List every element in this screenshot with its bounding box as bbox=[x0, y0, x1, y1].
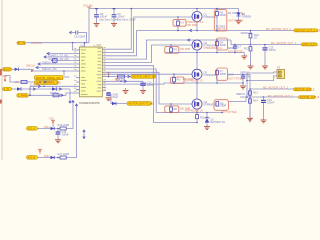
svg-text:PAD: PAD bbox=[113, 95, 118, 99]
IC right pins bbox=[102, 49, 106, 90]
wire to ch1 source line bbox=[106, 31, 294, 56]
svg-text:GREEN: GREEN bbox=[242, 14, 251, 18]
capacitor C1 bbox=[94, 8, 119, 24]
svg-text:BAT54: BAT54 bbox=[50, 91, 58, 95]
resistor box R9 (right ch4) bbox=[214, 100, 229, 111]
output wire ch2 bbox=[231, 40, 310, 45]
svg-text:NOT FITTED: NOT FITTED bbox=[228, 18, 243, 22]
svg-text:BAT54HT1G: BAT54HT1G bbox=[211, 120, 226, 124]
svg-text:STM32F103C8T6: STM32F103C8T6 bbox=[79, 101, 100, 105]
cap input A bbox=[56, 129, 70, 140]
svg-text:C6 100nF: C6 100nF bbox=[74, 35, 86, 39]
resistor R5 dnp box bbox=[171, 74, 185, 83]
junction + arrow bbox=[120, 80, 126, 83]
divider resistor Rb bbox=[249, 99, 259, 119]
snubber cap ch2 bbox=[233, 44, 242, 54]
junction input A bbox=[57, 128, 59, 130]
wire rail corner to LED bbox=[238, 9, 240, 13]
svg-text:330R: 330R bbox=[228, 46, 234, 50]
wire to ch3 gate bbox=[106, 73, 192, 75]
transistor Q3 bbox=[192, 69, 217, 83]
svg-text:NTR4003N: NTR4003N bbox=[204, 73, 217, 77]
3V3 arrow input B bbox=[38, 149, 42, 154]
wire to connector pin2 bbox=[247, 73, 275, 81]
transistor Q1 bbox=[192, 8, 217, 31]
diode input A bbox=[51, 125, 55, 130]
svg-text:MOTOR_BOOT0_MC: MOTOR_BOOT0_MC bbox=[129, 102, 154, 106]
power down arrow red bbox=[3, 76, 7, 82]
svg-text:SWDIO_MC: SWDIO_MC bbox=[42, 60, 56, 64]
wire vertical to label ovals bbox=[63, 71, 65, 76]
svg-text:330R: 330R bbox=[220, 104, 226, 108]
svg-text:R3: R3 bbox=[174, 48, 178, 52]
svg-text:S_IN: S_IN bbox=[3, 87, 9, 91]
svg-text:1N41: 1N41 bbox=[44, 125, 51, 129]
svg-text:C7: C7 bbox=[238, 44, 242, 48]
wire servo2 drop bbox=[246, 81, 248, 98]
wire to pin1 bbox=[73, 43, 77, 50]
wire from BOOT oval bbox=[11, 68, 14, 70]
output wire ch3 bbox=[228, 75, 251, 122]
svg-text:3V3: 3V3 bbox=[48, 80, 53, 84]
svg-text:MC_MOTOR_OUT_1: MC_MOTOR_OUT_1 bbox=[271, 41, 296, 45]
svg-text:P2: P2 bbox=[277, 66, 281, 70]
wire row 87.5 bbox=[21, 88, 44, 90]
ground input A bbox=[55, 140, 61, 143]
servo row2 wire bbox=[250, 88, 310, 90]
wire to ch4 source line bbox=[106, 69, 222, 113]
wire to 3V3 rail bbox=[106, 9, 131, 50]
svg-text:SIG_B: SIG_B bbox=[28, 156, 36, 160]
wire pin row 7 bbox=[31, 70, 76, 72]
divider resistor servo1 lower bbox=[244, 45, 252, 67]
svg-text:PIC: PIC bbox=[93, 45, 97, 47]
wire pin row 5 bbox=[38, 60, 76, 65]
svg-text:PA0: PA0 bbox=[65, 75, 70, 79]
svg-text:R11 1K: R11 1K bbox=[200, 115, 209, 119]
svg-text:R8: R8 bbox=[174, 107, 178, 111]
resistor R pullup bbox=[108, 75, 130, 82]
wire ch2 source to ch3 drain bbox=[196, 53, 198, 70]
svg-text:3V3: 3V3 bbox=[49, 117, 54, 121]
wire pin row 4 bbox=[51, 59, 76, 63]
diode D6 bbox=[17, 87, 21, 90]
source line ch2 bbox=[165, 52, 244, 54]
svg-text:SWCLK_MC: SWCLK_MC bbox=[42, 67, 57, 71]
ground ch2 (end of source line) bbox=[243, 53, 245, 57]
net label oval NRST_MC bbox=[131, 75, 156, 79]
IC left pins bbox=[76, 50, 80, 93]
resistor R11 bbox=[15, 80, 53, 84]
wire to ch4 gate bbox=[106, 72, 192, 104]
wire to ch2 gate bbox=[106, 45, 192, 62]
svg-text:100nF: 100nF bbox=[269, 48, 277, 52]
wire input A bbox=[38, 128, 61, 130]
resistor R3 dnp box bbox=[165, 45, 179, 53]
resistor input B bbox=[58, 152, 70, 159]
servo row3 wire bbox=[240, 96, 310, 98]
wire to ch2 drain bbox=[106, 40, 231, 59]
wire corner down with arrow bbox=[69, 90, 71, 104]
diode glyph on row bbox=[112, 102, 116, 105]
wire 3V3 rail bbox=[89, 8, 239, 10]
clamp resistor under ch4 bbox=[196, 113, 209, 124]
ground below C2 bbox=[111, 24, 117, 27]
divider resistor Ra bbox=[249, 91, 259, 96]
junction + arrow glyphs bbox=[29, 82, 39, 90]
svg-text:MTR_OUT_1: MTR_OUT_1 bbox=[303, 42, 319, 46]
source line junctions ch3 bbox=[196, 82, 198, 84]
net label oval input B bbox=[27, 156, 38, 160]
svg-text:BOOT: BOOT bbox=[3, 67, 11, 71]
svg-text:MC_MOTOR_OUT_2: MC_MOTOR_OUT_2 bbox=[263, 86, 288, 90]
ground below crystal bbox=[106, 98, 112, 101]
capacitor C2 bbox=[112, 8, 137, 24]
arrow on ch2 drain bbox=[188, 39, 191, 41]
wire to clamp line bbox=[106, 66, 197, 123]
resistor box R7 (right ch3) bbox=[216, 68, 244, 83]
ground servo1 A bbox=[248, 66, 254, 69]
wire row 81.3 bbox=[106, 80, 143, 82]
ground below C1 bbox=[94, 24, 100, 27]
source line junctions ch4 bbox=[196, 112, 198, 114]
svg-text:10K DNP: 10K DNP bbox=[180, 47, 191, 51]
ground mid bbox=[123, 88, 129, 93]
svg-text:R15: R15 bbox=[244, 47, 249, 51]
net label oval (stacked 2) bbox=[35, 81, 61, 85]
junction node bbox=[84, 42, 86, 44]
wire reset row bbox=[106, 76, 131, 78]
wire input B bbox=[38, 157, 61, 159]
3V3 power arrow at reset bbox=[107, 72, 111, 76]
svg-text:1K: 1K bbox=[254, 36, 257, 40]
wire ch3 source to ch4 drain bbox=[196, 83, 198, 99]
wire pin row 6 bbox=[36, 66, 76, 71]
diode D7 BAT54 row bbox=[44, 87, 70, 95]
stub glyph right A bbox=[83, 130, 85, 139]
wire to riser A bbox=[66, 101, 73, 129]
junction node bbox=[72, 42, 74, 44]
junction gate R5 bbox=[173, 73, 175, 75]
net label oval row2 bbox=[294, 87, 315, 91]
net label oval VIN (top left) bbox=[17, 41, 26, 45]
junction gate R1 bbox=[177, 16, 179, 18]
net label oval ch1 out bbox=[294, 28, 320, 32]
crystal Y1 bbox=[107, 93, 111, 96]
svg-text:SERVO: SERVO bbox=[240, 71, 249, 75]
svg-text:MOTOR_DRIVE_SIG_1: MOTOR_DRIVE_SIG_1 bbox=[36, 76, 64, 80]
net label oval IN2 (far left) bbox=[3, 87, 12, 91]
junction gate R3 bbox=[170, 44, 172, 46]
svg-text:S_PWM: S_PWM bbox=[18, 93, 28, 97]
cap row3 bbox=[261, 97, 275, 120]
svg-text:NOT FITTED: NOT FITTED bbox=[228, 50, 243, 54]
net label oval elongated bbox=[17, 93, 29, 97]
text near crystal bbox=[113, 93, 119, 100]
ground below C10 bbox=[140, 91, 146, 94]
net label oval input A bbox=[27, 127, 38, 131]
svg-text:100nF: 100nF bbox=[267, 100, 275, 104]
power net label 3V3 bbox=[83, 4, 93, 9]
svg-text:10K DNP: 10K DNP bbox=[187, 23, 198, 27]
ground ch3 bbox=[240, 86, 246, 89]
ground right B bbox=[261, 120, 267, 123]
svg-text:330R: 330R bbox=[220, 72, 226, 76]
IC pin name smudges bbox=[81, 44, 101, 95]
wire pin row 2 bbox=[47, 52, 76, 58]
resistor box R4 (right) bbox=[216, 38, 244, 54]
svg-text:NTR4003NT1G: NTR4003NT1G bbox=[186, 20, 204, 24]
wire from oval to IC bbox=[27, 42, 90, 44]
svg-text:MOTOR_OUT_0_A33: MOTOR_OUT_0_A33 bbox=[296, 28, 320, 32]
wire pin row 3 bbox=[44, 56, 76, 62]
divider resistor servo1 upper bbox=[249, 30, 259, 46]
net label oval ch2 out bbox=[302, 42, 319, 46]
net label oval NRST (stacked 1) bbox=[35, 76, 65, 80]
diode D5 bbox=[15, 68, 19, 71]
svg-text:U2: U2 bbox=[81, 43, 85, 47]
wire corner up to pin row 91 bbox=[66, 93, 76, 95]
svg-text:1N41: 1N41 bbox=[44, 154, 51, 158]
svg-text:R1: R1 bbox=[181, 21, 185, 25]
svg-text:MC_MOTOR_OUT_3: MC_MOTOR_OUT_3 bbox=[268, 94, 293, 98]
IC pin numbers bbox=[74, 47, 105, 92]
svg-text:5V_IN: 5V_IN bbox=[18, 41, 25, 45]
junction input B bbox=[57, 157, 59, 159]
diode input B bbox=[51, 156, 55, 159]
net label oval BOOT (far left) bbox=[3, 67, 12, 71]
page border left bbox=[1, 0, 3, 160]
red tick on row bbox=[115, 79, 118, 82]
svg-text:S_CMD: S_CMD bbox=[30, 82, 39, 86]
ground servo1 B bbox=[262, 66, 268, 69]
snubber cap ch3 bbox=[241, 74, 250, 86]
svg-text:R16 220R: R16 220R bbox=[58, 123, 70, 127]
clamp diode D2 bbox=[205, 113, 226, 127]
output wire ch4 bbox=[229, 97, 247, 102]
svg-text:SERVO_1: SERVO_1 bbox=[241, 31, 253, 35]
svg-text:NTR4003NT1G: NTR4003NT1G bbox=[185, 109, 203, 113]
svg-text:MOTOR_NRST_MC: MOTOR_NRST_MC bbox=[133, 75, 157, 79]
resistor input A bbox=[58, 123, 70, 130]
svg-text:330R: 330R bbox=[220, 13, 226, 17]
wire 3V3 drop to VDD bbox=[88, 9, 90, 43]
ground right A bbox=[247, 118, 253, 121]
wire vertical 30 down bbox=[29, 86, 31, 95]
svg-text:MOTOR_OUT_3: MOTOR_OUT_3 bbox=[300, 95, 320, 99]
svg-text:100nF: 100nF bbox=[62, 132, 70, 136]
resistor network box R2 (right) bbox=[214, 8, 227, 32]
cap servo1 bbox=[263, 44, 277, 66]
transistor Q2 bbox=[192, 40, 222, 53]
wire diode to row bbox=[19, 69, 34, 71]
component on row bbox=[29, 94, 63, 97]
wire from power sym to row bbox=[5, 76, 35, 83]
svg-text:MOTOR_OUT_2: MOTOR_OUT_2 bbox=[295, 87, 315, 91]
wire to ch3 source line bbox=[106, 83, 243, 84]
IC top pin bbox=[84, 44, 86, 48]
junction gate R8 bbox=[170, 103, 172, 105]
net label oval row3 bbox=[299, 95, 320, 99]
LED D1 bbox=[236, 12, 251, 21]
wire boot row bbox=[106, 95, 127, 104]
ground clamp bbox=[204, 127, 210, 130]
border red dash 1 bbox=[0, 69, 2, 76]
wire from IN2 oval bbox=[11, 88, 17, 90]
svg-text:R13: R13 bbox=[253, 91, 258, 95]
arrowhead on source line bbox=[190, 29, 193, 32]
svg-text:10K DNP: 10K DNP bbox=[183, 77, 194, 81]
svg-text:NTR4003N: NTR4003N bbox=[204, 102, 217, 106]
3V3 arrow input A bbox=[49, 117, 55, 125]
svg-text:R5: R5 bbox=[177, 77, 181, 81]
wire to riser B bbox=[66, 105, 76, 158]
svg-text:R17 220R: R17 220R bbox=[58, 152, 70, 156]
transistor Q4 bbox=[192, 99, 217, 113]
svg-text:R14: R14 bbox=[253, 99, 258, 103]
border red dash 2 bbox=[0, 100, 2, 104]
svg-text:C8: C8 bbox=[246, 75, 250, 79]
capacitor C10 bbox=[140, 81, 154, 91]
svg-text:10K: 10K bbox=[15, 80, 20, 84]
svg-text:SWCLK: SWCLK bbox=[26, 63, 35, 67]
wire row 94.7 bbox=[29, 94, 67, 96]
VDDA filter wire bbox=[70, 31, 87, 43]
svg-text:NOT FITTED: NOT FITTED bbox=[222, 110, 237, 114]
resistor R1 dnp box bbox=[173, 17, 186, 31]
wire to ch1 gate bbox=[106, 17, 192, 53]
net label oval BOOT0_MC bbox=[127, 102, 154, 106]
svg-text:MC_MOTOR_OUT_0: MC_MOTOR_OUT_0 bbox=[266, 27, 291, 31]
ground below LED bbox=[236, 21, 242, 24]
connector P1 bbox=[275, 66, 284, 79]
wire to connector pin1 bbox=[247, 72, 275, 73]
svg-text:SIG_A: SIG_A bbox=[28, 127, 36, 131]
svg-text:330R: 330R bbox=[220, 43, 226, 47]
svg-text:DNP 1%: DNP 1% bbox=[216, 27, 227, 31]
op IC U1 box bbox=[80, 43, 103, 96]
resistor R8 dnp box bbox=[165, 104, 179, 113]
svg-text:R10 DNI: R10 DNI bbox=[32, 41, 42, 45]
